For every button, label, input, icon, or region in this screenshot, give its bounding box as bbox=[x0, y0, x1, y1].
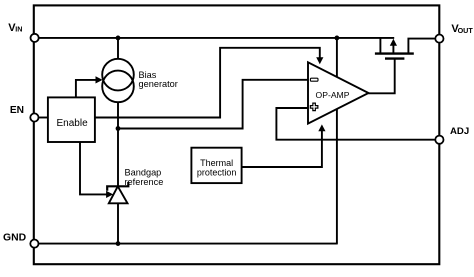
pin EN terminal circle bbox=[30, 113, 38, 121]
wire: bandgap zener to GND rail bbox=[117, 203, 119, 244]
transistor Q1 pass MOSFET: gate bar bbox=[385, 57, 404, 59]
wire: bias generator top lead bbox=[117, 38, 119, 59]
label: VOUT pin bbox=[451, 23, 473, 35]
arrowhead: thermal signal into op-amp bottom edge bbox=[318, 124, 325, 131]
transistor Q1 pass MOSFET: source lead bbox=[379, 38, 381, 54]
wire: MOSFET drain to VOUT pin bbox=[408, 39, 435, 54]
bias generator current source (two overlapping circles) bbox=[102, 59, 134, 102]
svg-text:OUT: OUT bbox=[458, 26, 474, 35]
svg-text:EN: EN bbox=[10, 105, 24, 116]
svg-text:OP-AMP: OP-AMP bbox=[316, 90, 350, 100]
node: VIN rail / bias generator junction bbox=[116, 36, 121, 41]
node: zener / GND rail junction bbox=[116, 241, 121, 246]
wire: VIN rail (VIN pin to MOSFET source side) bbox=[37, 37, 394, 39]
svg-text:ADJ: ADJ bbox=[450, 126, 469, 137]
arrowhead: into bandgap zener bbox=[106, 191, 113, 198]
label: Bandgap reference bbox=[125, 168, 164, 187]
wire: enable to bandgap reference bbox=[80, 142, 107, 195]
wire: bandgap node to op-amp inverting input bbox=[118, 80, 308, 129]
Thermal protection block bbox=[191, 148, 241, 183]
op-amp U1 triangle bbox=[308, 62, 369, 123]
svg-text:reference: reference bbox=[125, 177, 164, 187]
wire: enable to op-amp top (enable signal) bbox=[95, 48, 320, 118]
arrowhead: enable signal into op-amp top edge bbox=[316, 57, 323, 64]
svg-text:IN: IN bbox=[15, 25, 22, 34]
wire: thermal protection to op-amp bottom bbox=[242, 131, 322, 168]
wire: EN pin to Enable box bbox=[37, 117, 48, 119]
op-amp U1 inverting input glyph bbox=[310, 78, 318, 81]
wire: GND rail bbox=[37, 243, 338, 245]
label: VIN pin bbox=[8, 22, 22, 34]
node: VIN rail / op-amp supply junction bbox=[335, 36, 340, 41]
pin GND terminal circle bbox=[30, 240, 38, 248]
wire: ADJ pin to op-amp non-inverting input bbox=[276, 108, 435, 140]
Enable block bbox=[48, 97, 95, 142]
node: bandgap tap junction bbox=[116, 126, 121, 131]
svg-text:protection: protection bbox=[197, 167, 237, 177]
arrowhead: into bias generator bbox=[96, 76, 103, 83]
svg-text:generator: generator bbox=[139, 79, 178, 89]
svg-text:Enable: Enable bbox=[57, 118, 89, 129]
wire: op-amp output to MOSFET gate bbox=[368, 60, 394, 94]
svg-text:GND: GND bbox=[3, 232, 27, 243]
wire: bias generator to bandgap (vertical) bbox=[117, 102, 119, 187]
pin ADJ terminal circle bbox=[435, 136, 443, 144]
pin VIN terminal circle bbox=[30, 34, 38, 42]
pin VOUT terminal circle bbox=[435, 35, 443, 43]
op-amp U1 non-inverting input glyph bbox=[310, 103, 318, 111]
label: Bias generator bbox=[139, 70, 178, 89]
bandgap reference zener diode D1 bbox=[107, 182, 128, 203]
wire: enable to bias generator bbox=[76, 80, 97, 98]
transistor Q1 pass MOSFET: bulk arrow bbox=[392, 44, 394, 54]
transistor Q1 pass MOSFET: channel bar bbox=[375, 52, 414, 54]
wire: op-amp supply drop (VIN rail to GND rail) bbox=[336, 38, 338, 244]
